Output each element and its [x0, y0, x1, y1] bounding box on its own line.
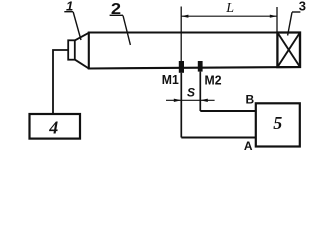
svg-text:B: B [246, 93, 255, 107]
dimension L line with arrows [181, 15, 277, 17]
svg-text:A: A [244, 139, 253, 153]
dimension S line with outside arrows [166, 99, 215, 101]
svg-text:M2: M2 [205, 72, 222, 87]
svg-text:S: S [187, 85, 195, 99]
nozzle cap [68, 40, 75, 59]
cylinder tube 2 [89, 33, 300, 69]
crossed box 3 [277, 33, 300, 68]
wire B horizontal to box 5 [200, 110, 256, 112]
wire A horizontal to box 5 [181, 137, 256, 139]
dimension L extension line right [276, 7, 278, 32]
dimension L extension line left [180, 7, 182, 62]
sensor M2 [198, 61, 203, 72]
sensor M1 [179, 61, 184, 73]
wire from M1 down [180, 73, 182, 138]
box 5 [256, 103, 300, 146]
svg-text:L: L [225, 1, 234, 16]
wire from nozzle cap to box 4 [53, 50, 68, 114]
svg-text:4: 4 [48, 117, 58, 137]
svg-text:M1: M1 [162, 72, 179, 87]
box 4 [30, 114, 81, 139]
cone (tapered section) [75, 33, 89, 41]
wire from M2 down [199, 72, 201, 111]
svg-text:5: 5 [273, 113, 282, 133]
